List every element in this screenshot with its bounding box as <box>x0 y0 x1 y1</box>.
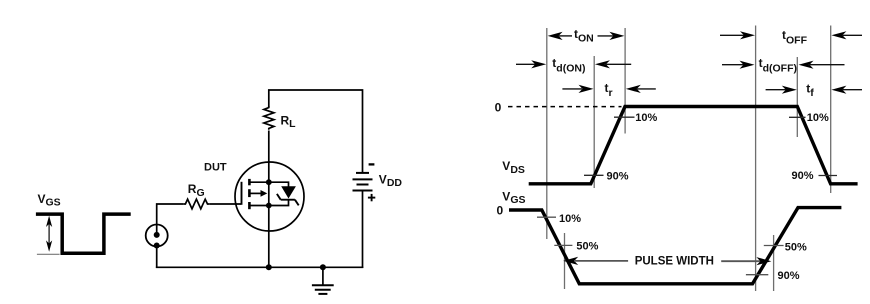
reference line A turn-on start <box>546 28 548 239</box>
pulse generator <box>146 225 168 249</box>
label 10 percent VGS fall <box>559 213 581 225</box>
dashed zero line VDS <box>508 106 622 108</box>
reference line C end of tr <box>624 28 626 134</box>
svg-text:VGS: VGS <box>502 190 525 206</box>
transistor Q1 DUT p-channel MOSFET <box>235 162 304 231</box>
tick VGS fall 50 percent <box>554 244 572 246</box>
svg-text:RL: RL <box>281 113 297 130</box>
svg-text:DUT: DUT <box>204 162 227 174</box>
label VDD <box>379 173 403 190</box>
tick VDS fall 90 percent <box>819 175 838 177</box>
svg-text:90%: 90% <box>792 170 814 182</box>
label 90 percent VDS fall <box>792 170 814 182</box>
junction ground to rail <box>320 264 326 270</box>
svg-text:RG: RG <box>188 182 205 199</box>
body diode of DUT <box>269 182 299 205</box>
dimension tON <box>548 27 625 45</box>
svg-text:0: 0 <box>495 100 502 114</box>
wire generator to RG <box>157 204 184 225</box>
wire generator to bottom rail <box>156 246 158 268</box>
svg-text:VDD: VDD <box>379 173 403 190</box>
svg-text:tf: tf <box>806 81 814 99</box>
wire bottom rail <box>156 266 363 268</box>
dimension pulse width <box>563 255 771 267</box>
label RG <box>188 182 205 199</box>
svg-text:tOFF: tOFF <box>782 28 808 46</box>
svg-text:VDS: VDS <box>502 159 525 176</box>
dimension td(OFF) <box>722 56 845 75</box>
dimension tf <box>766 81 862 99</box>
dimension tr <box>562 81 655 99</box>
ground <box>312 267 334 294</box>
svg-text:50%: 50% <box>576 241 598 253</box>
svg-text:50%: 50% <box>785 242 807 254</box>
svg-text:10%: 10% <box>635 112 657 124</box>
tick VDS rise 90 percent <box>584 174 604 176</box>
svg-text:tON: tON <box>574 27 594 45</box>
wire drain vertical through DUT <box>268 131 270 269</box>
wire VDD to bottom rail <box>362 191 364 269</box>
node source junction dot <box>266 203 272 209</box>
node drain junction dot <box>266 179 272 185</box>
tick VDS rise 10 percent <box>614 116 635 118</box>
waveform VDS <box>529 107 858 184</box>
label VGS <box>502 190 525 206</box>
tick VGS rise 50 percent <box>764 245 784 247</box>
label 50 percent VGS fall <box>576 241 598 253</box>
label VGS input <box>38 192 61 209</box>
wire top rail <box>269 90 363 172</box>
svg-text:10%: 10% <box>807 112 829 124</box>
tick VGS fall 10 percent <box>537 216 556 218</box>
label 10 percent VDS rise <box>635 112 657 124</box>
zero reference line <box>37 253 60 255</box>
resistor RL <box>264 106 274 130</box>
battery VDD <box>353 173 373 191</box>
label plus terminal <box>368 194 375 201</box>
label 90 percent VGS rise <box>778 270 800 282</box>
svg-text:0: 0 <box>497 203 504 217</box>
label VDS <box>502 159 525 176</box>
reference line E end of td(OFF) <box>796 57 798 137</box>
label DUT <box>204 162 227 174</box>
reference line B end of td(ON) <box>593 56 595 188</box>
reference line VGS rise 50 percent <box>773 235 775 291</box>
waveform VGS <box>509 208 841 284</box>
reference line D turn-off start <box>755 26 757 292</box>
resistor RG <box>183 199 210 209</box>
dimension td(ON) <box>516 56 631 74</box>
reference line F end of tf <box>830 26 832 194</box>
wire RG to gate <box>210 203 241 205</box>
svg-text:td(ON): td(ON) <box>552 56 585 74</box>
waveform VGS input pulse <box>36 214 131 253</box>
reference line VGS fall 50 percent <box>564 233 566 289</box>
svg-text:90%: 90% <box>607 170 629 182</box>
svg-text:PULSE WIDTH: PULSE WIDTH <box>635 255 714 267</box>
svg-text:VGS: VGS <box>38 192 61 209</box>
label RL <box>281 113 297 130</box>
label 0 for VDS <box>495 100 502 114</box>
amplitude arrow <box>46 216 52 252</box>
label 0 for VGS <box>497 203 504 217</box>
svg-text:td(OFF): td(OFF) <box>759 56 797 75</box>
dimension tOFF <box>720 28 862 46</box>
label 10 percent VDS fall <box>807 112 829 124</box>
svg-text:90%: 90% <box>778 270 800 282</box>
svg-text:tr: tr <box>605 81 613 99</box>
label minus terminal <box>369 163 375 165</box>
label 50 percent VGS rise <box>785 242 807 254</box>
label 90 percent VDS rise <box>607 170 629 182</box>
svg-text:10%: 10% <box>559 213 581 225</box>
junction source to rail <box>266 264 272 270</box>
tick VDS fall 10 percent <box>789 116 806 118</box>
tick VGS rise 90 percent <box>746 274 768 276</box>
